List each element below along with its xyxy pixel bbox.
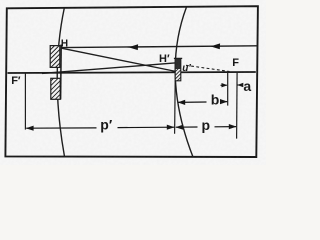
dimension p line — [175, 124, 236, 130]
arrowhead on incoming ray (left, inner) — [129, 44, 139, 50]
extension line at object (p' left end) — [24, 74, 26, 130]
extension line below H' — [174, 81, 177, 134]
extension line below F — [236, 72, 239, 139]
ray B from axis to H' bar top — [42, 63, 177, 74]
dashed chief ray u' to image point — [186, 65, 230, 71]
principal plane H line — [60, 45, 63, 100]
principal plane H upper hatched box — [50, 46, 60, 68]
dimension b line — [178, 99, 228, 105]
H' bar upper dark part — [175, 59, 180, 69]
extension line at image point (for b and a) — [227, 72, 229, 106]
incoming parallel ray (right to left) — [62, 46, 258, 48]
arrowhead on incoming ray (right) — [211, 43, 221, 49]
refracted ray A from H to axis at H' — [62, 48, 177, 71]
dimension p' line — [26, 125, 175, 131]
dimension a: left arrow — [221, 83, 228, 87]
principal plane H lower hatched box — [51, 78, 60, 99]
right refracting surface arc — [175, 7, 193, 157]
H' bar top cap — [174, 57, 182, 59]
dimension a: right arrow — [237, 83, 243, 87]
principal plane H' hatched bar — [175, 59, 181, 81]
left refracting surface arc — [57, 8, 64, 157]
optical axis — [8, 72, 256, 73]
